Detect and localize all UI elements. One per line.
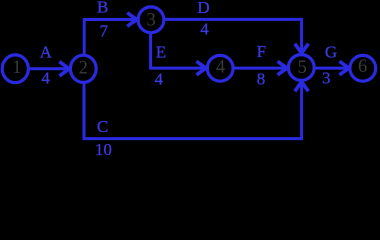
svg-text:10: 10 [95,140,112,158]
svg-text:6: 6 [358,57,367,77]
svg-text:A: A [40,43,53,62]
svg-text:4: 4 [216,58,225,78]
svg-text:3: 3 [322,68,331,87]
svg-text:5: 5 [298,58,307,78]
svg-text:4: 4 [200,20,209,39]
svg-text:F: F [257,42,266,61]
svg-text:4: 4 [154,70,163,89]
svg-text:7: 7 [99,21,108,40]
svg-text:3: 3 [146,11,155,31]
svg-text:B: B [97,0,108,17]
svg-text:1: 1 [12,58,21,78]
svg-text:C: C [97,117,108,136]
svg-text:8: 8 [257,70,266,89]
svg-text:D: D [197,0,209,17]
svg-text:4: 4 [41,68,50,87]
svg-text:2: 2 [79,58,88,78]
svg-text:E: E [156,43,166,62]
svg-text:G: G [325,43,337,62]
